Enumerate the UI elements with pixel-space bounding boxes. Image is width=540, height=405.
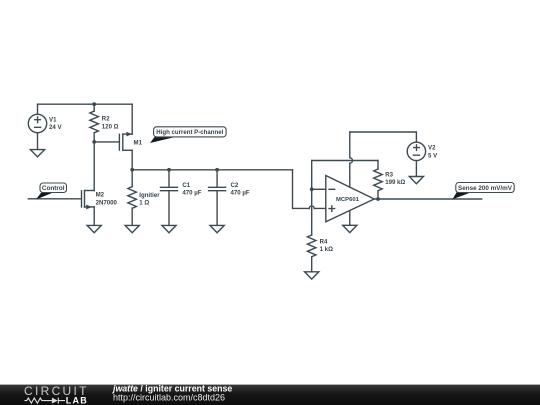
wire R2 junction down to M2 drain [93,142,95,191]
wire M1 source up [131,104,133,134]
wire opamp V- pin [349,211,351,225]
wire R4 branch vertical [311,189,313,235]
svg-text:M2: M2 [96,192,105,199]
ground V1 [30,150,44,157]
svg-text:MCP601: MCP601 [336,197,360,203]
ground R4 [305,272,319,279]
svg-text:V2: V2 [428,145,436,152]
voltage source V2 [407,142,425,160]
op-amp U1 MCP601 [326,176,374,222]
wire minus input [312,188,326,190]
svg-text:Ignitier: Ignitier [139,192,160,199]
ground C2 [210,225,224,232]
wire hop V+ over feedback [350,158,353,163]
node C2 junction [215,168,219,172]
svg-text:470 µF: 470 µF [182,190,201,197]
flag Control [36,183,67,200]
resistor R4 [307,235,316,272]
node M1 drain junction [130,168,134,172]
ground opamp V- [343,225,357,232]
flag Sense 200 mV/mV [453,183,515,200]
svg-text:LAB: LAB [66,395,88,405]
svg-text:http://circuitlab.com/c8dtd26: http://circuitlab.com/c8dtd26 [113,392,225,402]
svg-text:199 kΩ: 199 kΩ [385,179,405,186]
svg-text:470 µF: 470 µF [231,190,250,197]
ground C1 [162,225,176,232]
wire V2 bottom lead [415,161,417,177]
svg-text:M1: M1 [134,139,143,146]
ground M2 [87,225,101,232]
wire R2 to M1 gate [94,141,119,143]
capacitor C1 [161,170,178,226]
wire Control to M2 gate [28,198,81,200]
svg-text:R3: R3 [385,171,393,178]
wire hop over R4 branch [309,206,314,209]
wire feedback horizontal [312,160,378,162]
resistor R2 [90,104,99,142]
node minus input junction [310,187,314,191]
svg-text:1 kΩ: 1 kΩ [320,246,333,253]
capacitor C2 [209,170,226,226]
wire main node rail [132,169,292,171]
resistor Ignitier [128,170,137,226]
transistor M2 [82,191,95,210]
wire node to opamp plus input [293,170,326,209]
wire output sense [374,198,482,200]
wire M1 drain down [131,150,133,170]
ground Ignitier [125,225,139,232]
svg-text:R4: R4 [320,238,328,245]
wire V1 bottom lead [37,133,39,150]
svg-text:1 Ω: 1 Ω [139,200,149,207]
svg-text:V1: V1 [49,116,57,123]
node R2 bottom junction [92,140,96,144]
logo resistor-diode glyph [25,398,66,404]
node output junction [376,197,380,201]
svg-text:C2: C2 [231,182,239,189]
wire feedback vertical [311,161,313,190]
ground V2 [409,177,423,184]
node C1 junction [167,168,171,172]
transistor M1 [119,132,132,151]
svg-text:24 V: 24 V [49,124,62,131]
voltage source V1 [28,114,46,132]
svg-text:Control: Control [42,185,65,192]
svg-text:High current P-channel: High current P-channel [156,129,223,136]
footer bar [0,385,540,405]
wire V1 top lead [37,104,39,114]
svg-text:C1: C1 [182,182,190,189]
node top rail junction [92,102,96,106]
wire top rail V1 to M1 source [38,103,133,105]
flag High current P-channel [150,127,226,143]
svg-text:R2: R2 [102,116,110,123]
wire M2 source down [93,207,95,226]
resistor R3 [374,161,383,200]
svg-text:5 V: 5 V [428,153,438,160]
svg-text:2N7000: 2N7000 [96,199,118,206]
svg-text:120 Ω: 120 Ω [102,123,119,130]
svg-text:Sense 200 mV/mV: Sense 200 mV/mV [458,185,513,192]
wire V+ rail to V2 [350,132,417,142]
wire opamp V+ pin [349,132,351,186]
